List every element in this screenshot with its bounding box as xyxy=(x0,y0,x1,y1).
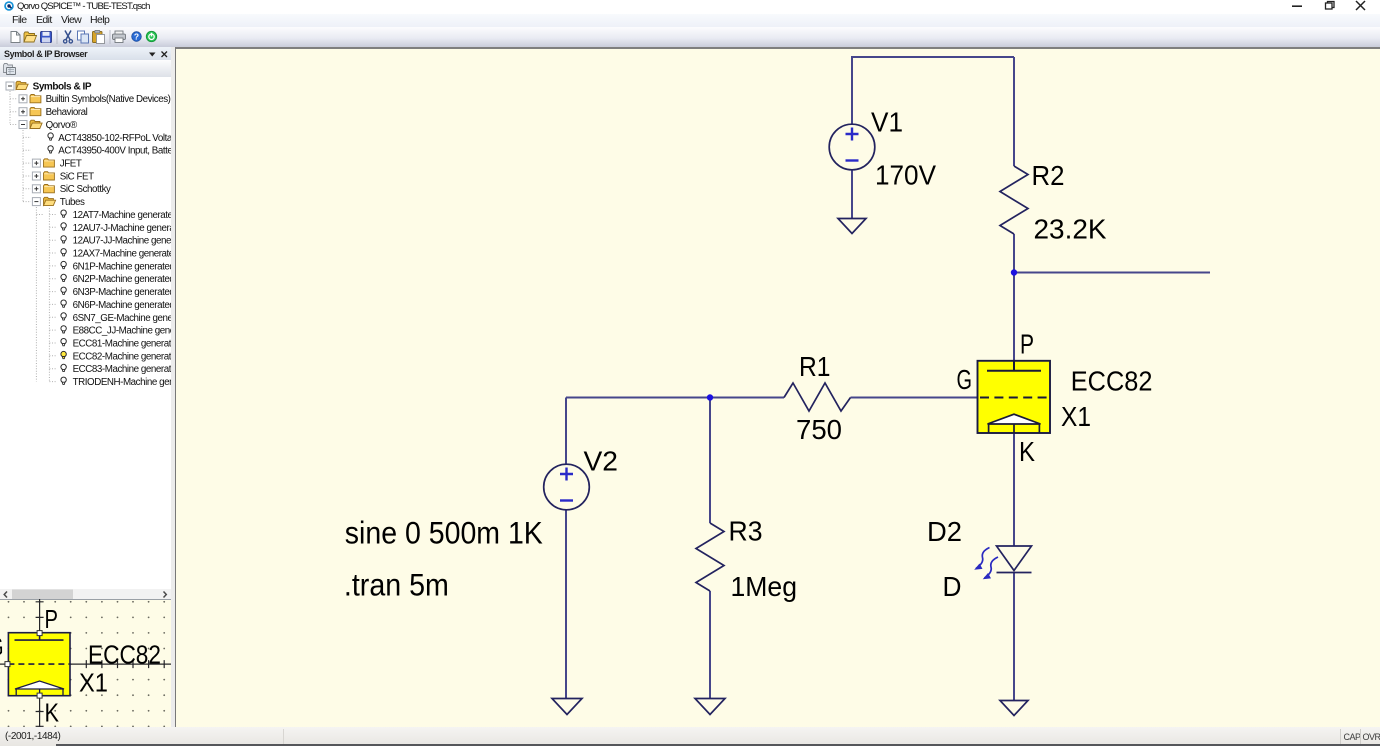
wire R1 to tube grid xyxy=(851,397,979,399)
ground below V1 xyxy=(838,219,866,234)
copy xyxy=(78,31,89,43)
diode D2 triangle xyxy=(997,546,1032,571)
voltage source V2 circle xyxy=(544,464,590,510)
D2 arrowhead 2 xyxy=(983,573,991,579)
svg-text:Qorvo®: Qorvo® xyxy=(46,120,78,131)
wire V2 bottom xyxy=(565,510,567,699)
voltage source V1 circle xyxy=(829,124,875,170)
svg-text:Builtin Symbols(Native Devices: Builtin Symbols(Native Devices) xyxy=(46,94,171,105)
svg-text:K: K xyxy=(45,699,60,727)
svg-text:12AU7-JJ-Machine genera: 12AU7-JJ-Machine genera xyxy=(73,236,171,247)
svg-text:ACT43850-102-RFPoL Voltage Reg: ACT43850-102-RFPoL Voltage Regu xyxy=(58,133,171,144)
svg-text:Behavioral: Behavioral xyxy=(46,107,88,118)
wire R3 top xyxy=(709,398,711,524)
svg-text:?: ? xyxy=(134,32,139,42)
svg-text:ECC82-Machine generated: ECC82-Machine generated xyxy=(73,351,171,362)
left docking panel xyxy=(0,47,171,727)
print xyxy=(113,31,126,43)
svg-text:12AU7-J-Machine generat: 12AU7-J-Machine generat xyxy=(73,223,171,234)
svg-text:SiC FET: SiC FET xyxy=(60,171,94,182)
D2 photo arrow 2 xyxy=(985,557,999,578)
svg-text:ECC83-Machine generated: ECC83-Machine generated xyxy=(73,364,171,375)
svg-text:ACT43950-400V Input, Battery C: ACT43950-400V Input, Battery Cha xyxy=(58,146,171,157)
svg-text:SiC Schottky: SiC Schottky xyxy=(60,184,111,195)
svg-text:G: G xyxy=(0,634,4,662)
menu bar xyxy=(0,14,1380,28)
svg-text:12AX7-Machine generated: 12AX7-Machine generated xyxy=(73,249,171,260)
svg-text:6N2P-Machine generated: 6N2P-Machine generated xyxy=(73,274,171,285)
diode D2 cathode bar xyxy=(997,572,1032,574)
triode X1 body xyxy=(978,361,1051,433)
wire V2 top xyxy=(565,398,567,465)
preview pin boxes xyxy=(5,631,42,699)
svg-text:ECC82: ECC82 xyxy=(88,641,161,669)
new file xyxy=(11,32,20,43)
wire R2 bottom to tube plate xyxy=(1013,234,1015,361)
ground below diode xyxy=(1000,701,1028,716)
svg-text:JFET: JFET xyxy=(60,159,82,170)
svg-text:TRIODENH-Machine gene: TRIODENH-Machine gene xyxy=(73,377,171,388)
junction node at R2 bottom xyxy=(1011,269,1017,275)
resistor R3 zigzag xyxy=(696,523,724,591)
save floppy xyxy=(41,32,52,43)
wire node to right xyxy=(1014,272,1210,274)
open folder xyxy=(24,32,37,42)
svg-text:6N6P-Machine generated: 6N6P-Machine generated xyxy=(73,300,171,311)
paste xyxy=(93,30,105,43)
wire R3 bottom xyxy=(709,591,711,699)
svg-text:Tubes: Tubes xyxy=(60,197,85,208)
canvas xyxy=(176,49,1380,728)
wire V1 bottom xyxy=(851,170,853,219)
D2 arrowhead 1 xyxy=(974,564,982,570)
V1 minus sign xyxy=(846,159,859,161)
svg-text:Symbols & IP: Symbols & IP xyxy=(33,81,92,92)
resistor R1 zigzag xyxy=(784,383,851,411)
cut scissors xyxy=(64,31,73,44)
wire input row V2 to R1 xyxy=(566,397,784,399)
preview axes xyxy=(0,599,171,727)
wire R2 top xyxy=(1013,57,1015,166)
wire top horizontal V1 to R2 xyxy=(852,56,1014,58)
svg-text:6N1P-Machine generated: 6N1P-Machine generated xyxy=(73,261,171,272)
V2 minus sign xyxy=(560,499,573,501)
preview tube symbol xyxy=(8,633,70,696)
svg-text:6SN7_GE-Machine genera: 6SN7_GE-Machine genera xyxy=(73,313,171,324)
preview labels xyxy=(0,606,161,728)
wire tube cathode to diode xyxy=(1013,433,1015,546)
ground below V2 xyxy=(552,699,582,715)
svg-text:X1: X1 xyxy=(79,669,108,697)
wire V1 top xyxy=(851,56,853,125)
svg-text:P: P xyxy=(45,606,59,634)
status bar xyxy=(0,727,1380,746)
toolbar xyxy=(0,27,1380,47)
svg-text:12AT7-Machine generated: 12AT7-Machine generated xyxy=(73,210,171,221)
ground below R3 xyxy=(695,699,725,715)
window title bar xyxy=(0,0,1380,14)
V1 plus sign xyxy=(846,128,859,141)
help xyxy=(132,32,142,42)
resistor R2 zigzag xyxy=(1000,166,1028,234)
svg-text:E88CC_JJ-Machine genera: E88CC_JJ-Machine genera xyxy=(73,326,171,337)
run/power xyxy=(146,31,156,41)
svg-text:ECC81-Machine generated: ECC81-Machine generated xyxy=(73,339,171,350)
D2 photo arrow 1 xyxy=(976,548,990,569)
svg-text:6N3P-Machine generated: 6N3P-Machine generated xyxy=(73,287,171,298)
wire diode to ground xyxy=(1013,573,1015,701)
junction node at R3 top xyxy=(707,394,713,400)
V2 plus sign xyxy=(560,468,573,481)
